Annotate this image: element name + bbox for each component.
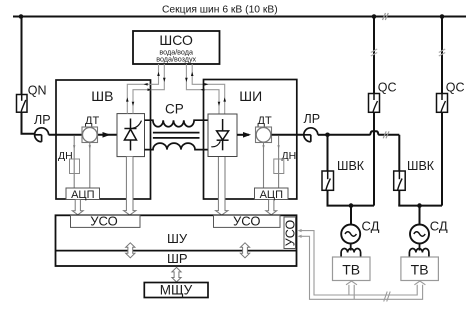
svg-text:АЦП: АЦП	[260, 189, 283, 201]
svg-text:QC: QC	[378, 80, 397, 94]
svg-text:ШИ: ШИ	[239, 88, 262, 104]
svg-text:ШВК: ШВК	[337, 159, 365, 173]
svg-text:АЦП: АЦП	[71, 189, 94, 201]
svg-text:ЛР: ЛР	[304, 112, 321, 126]
svg-text:ШВК: ШВК	[407, 159, 435, 173]
svg-text:ШСО: ШСО	[159, 32, 193, 48]
svg-text:ЛР: ЛР	[34, 113, 51, 127]
svg-text:Секция шин 6 кВ (10 кВ): Секция шин 6 кВ (10 кВ)	[162, 5, 278, 16]
svg-text:ШР: ШР	[167, 251, 188, 266]
svg-text:УСО: УСО	[233, 213, 260, 228]
svg-text:СД: СД	[430, 219, 448, 234]
svg-text:УСО: УСО	[283, 220, 297, 247]
svg-text:ДТ: ДТ	[258, 115, 272, 127]
svg-text:ДН: ДН	[58, 150, 73, 162]
svg-text:ТВ: ТВ	[342, 261, 360, 277]
svg-text:СД: СД	[362, 219, 380, 234]
svg-text:QN: QN	[28, 84, 47, 98]
svg-text:ДТ: ДТ	[85, 115, 99, 127]
svg-text:СР: СР	[165, 102, 184, 117]
svg-text:вода/воздух: вода/воздух	[156, 55, 196, 64]
svg-text:ТВ: ТВ	[411, 261, 429, 277]
svg-text:QC: QC	[446, 80, 465, 94]
svg-text:УСО: УСО	[90, 213, 117, 228]
svg-text:ШУ: ШУ	[167, 231, 188, 246]
svg-text:ШВ: ШВ	[91, 88, 113, 104]
svg-text:МЩУ: МЩУ	[160, 283, 193, 298]
